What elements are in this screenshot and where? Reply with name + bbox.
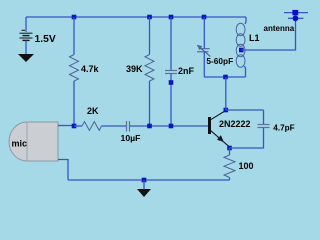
wire C2 top lead: [203, 17, 205, 49]
wire R4 bottom lead: [229, 178, 231, 181]
svg-text:L1: L1: [249, 33, 260, 43]
wire to R3: [74, 125, 82, 127]
node coil tap: [239, 48, 244, 53]
node collector: [224, 108, 229, 113]
node emitter: [227, 146, 232, 151]
variable capacitor C2 5-60pF: [197, 45, 211, 57]
wire top rail: [26, 16, 246, 18]
wire C3 to base: [130, 125, 209, 127]
svg-text:1.5V: 1.5V: [35, 34, 56, 45]
wire R2 top lead: [149, 17, 151, 55]
node top-rail / R2: [147, 15, 152, 20]
capacitor C1 2nF: [165, 71, 177, 74]
wire C2 bottom lead: [203, 52, 205, 77]
capacitor C4 4.7pF: [258, 125, 270, 128]
wire LC bottom rail: [204, 76, 246, 78]
wire C4 top lead: [263, 110, 265, 125]
svg-text:4.7pF: 4.7pF: [273, 123, 294, 132]
node LC rail / collector riser: [223, 75, 228, 80]
node top-rail / R1: [72, 15, 77, 20]
svg-text:2K: 2K: [87, 106, 99, 116]
battery V1 lead: [25, 17, 27, 32]
svg-text:39K: 39K: [126, 64, 143, 74]
node C1 bottom: [169, 124, 174, 129]
svg-text:100: 100: [239, 161, 254, 171]
wire R1 bottom lead: [73, 81, 75, 126]
wire C4 bottom lead: [230, 128, 264, 149]
resistor R3 2K: [82, 122, 102, 131]
wire C1 top lead: [170, 17, 172, 71]
wire R3 to C3: [102, 125, 127, 127]
node top-rail / C1: [169, 15, 174, 20]
svg-text:5-60pF: 5-60pF: [206, 56, 233, 66]
wire R2 bottom lead: [149, 81, 151, 126]
svg-text:antenna: antenna: [264, 24, 295, 33]
svg-text:2nF: 2nF: [178, 66, 195, 76]
wire coil bottom lead: [245, 66, 246, 77]
transistor Q1 2N2222: [208, 117, 211, 134]
svg-text:4.7k: 4.7k: [81, 64, 100, 74]
resistor R2 39K: [145, 55, 154, 82]
wire mic bottom pin: [58, 160, 68, 181]
inductor L1: [236, 23, 245, 67]
wire mic top pin: [58, 125, 74, 127]
wire ground rail: [68, 179, 230, 181]
wire collector riser: [225, 77, 227, 110]
capacitor C3 10uF: [127, 121, 130, 132]
wire R1 top lead: [73, 17, 75, 55]
svg-text:mic: mic: [12, 139, 28, 149]
node top-rail / C2: [202, 15, 207, 20]
ground (rail): [143, 180, 145, 189]
node R2 bottom: [147, 124, 152, 129]
resistor R1 4.7k: [70, 55, 79, 82]
wire C1 to node: [170, 74, 172, 127]
ground (battery): [18, 54, 34, 62]
wire R4 top lead: [229, 148, 231, 155]
battery V1: [20, 30, 33, 40]
wire coil top lead: [245, 17, 246, 24]
node below C1: [169, 80, 174, 85]
wire battery to ground: [25, 40, 27, 54]
wire tap to antenna: [241, 18, 295, 50]
antenna symbol: [284, 12, 308, 14]
resistor R4 100: [224, 155, 235, 178]
svg-text:2N2222: 2N2222: [219, 119, 251, 129]
microphone MIC: [9, 122, 58, 161]
wire collector to C4: [226, 109, 264, 111]
node ground rail: [142, 178, 147, 183]
node base rail left: [72, 124, 77, 129]
svg-text:10µF: 10µF: [121, 133, 141, 143]
